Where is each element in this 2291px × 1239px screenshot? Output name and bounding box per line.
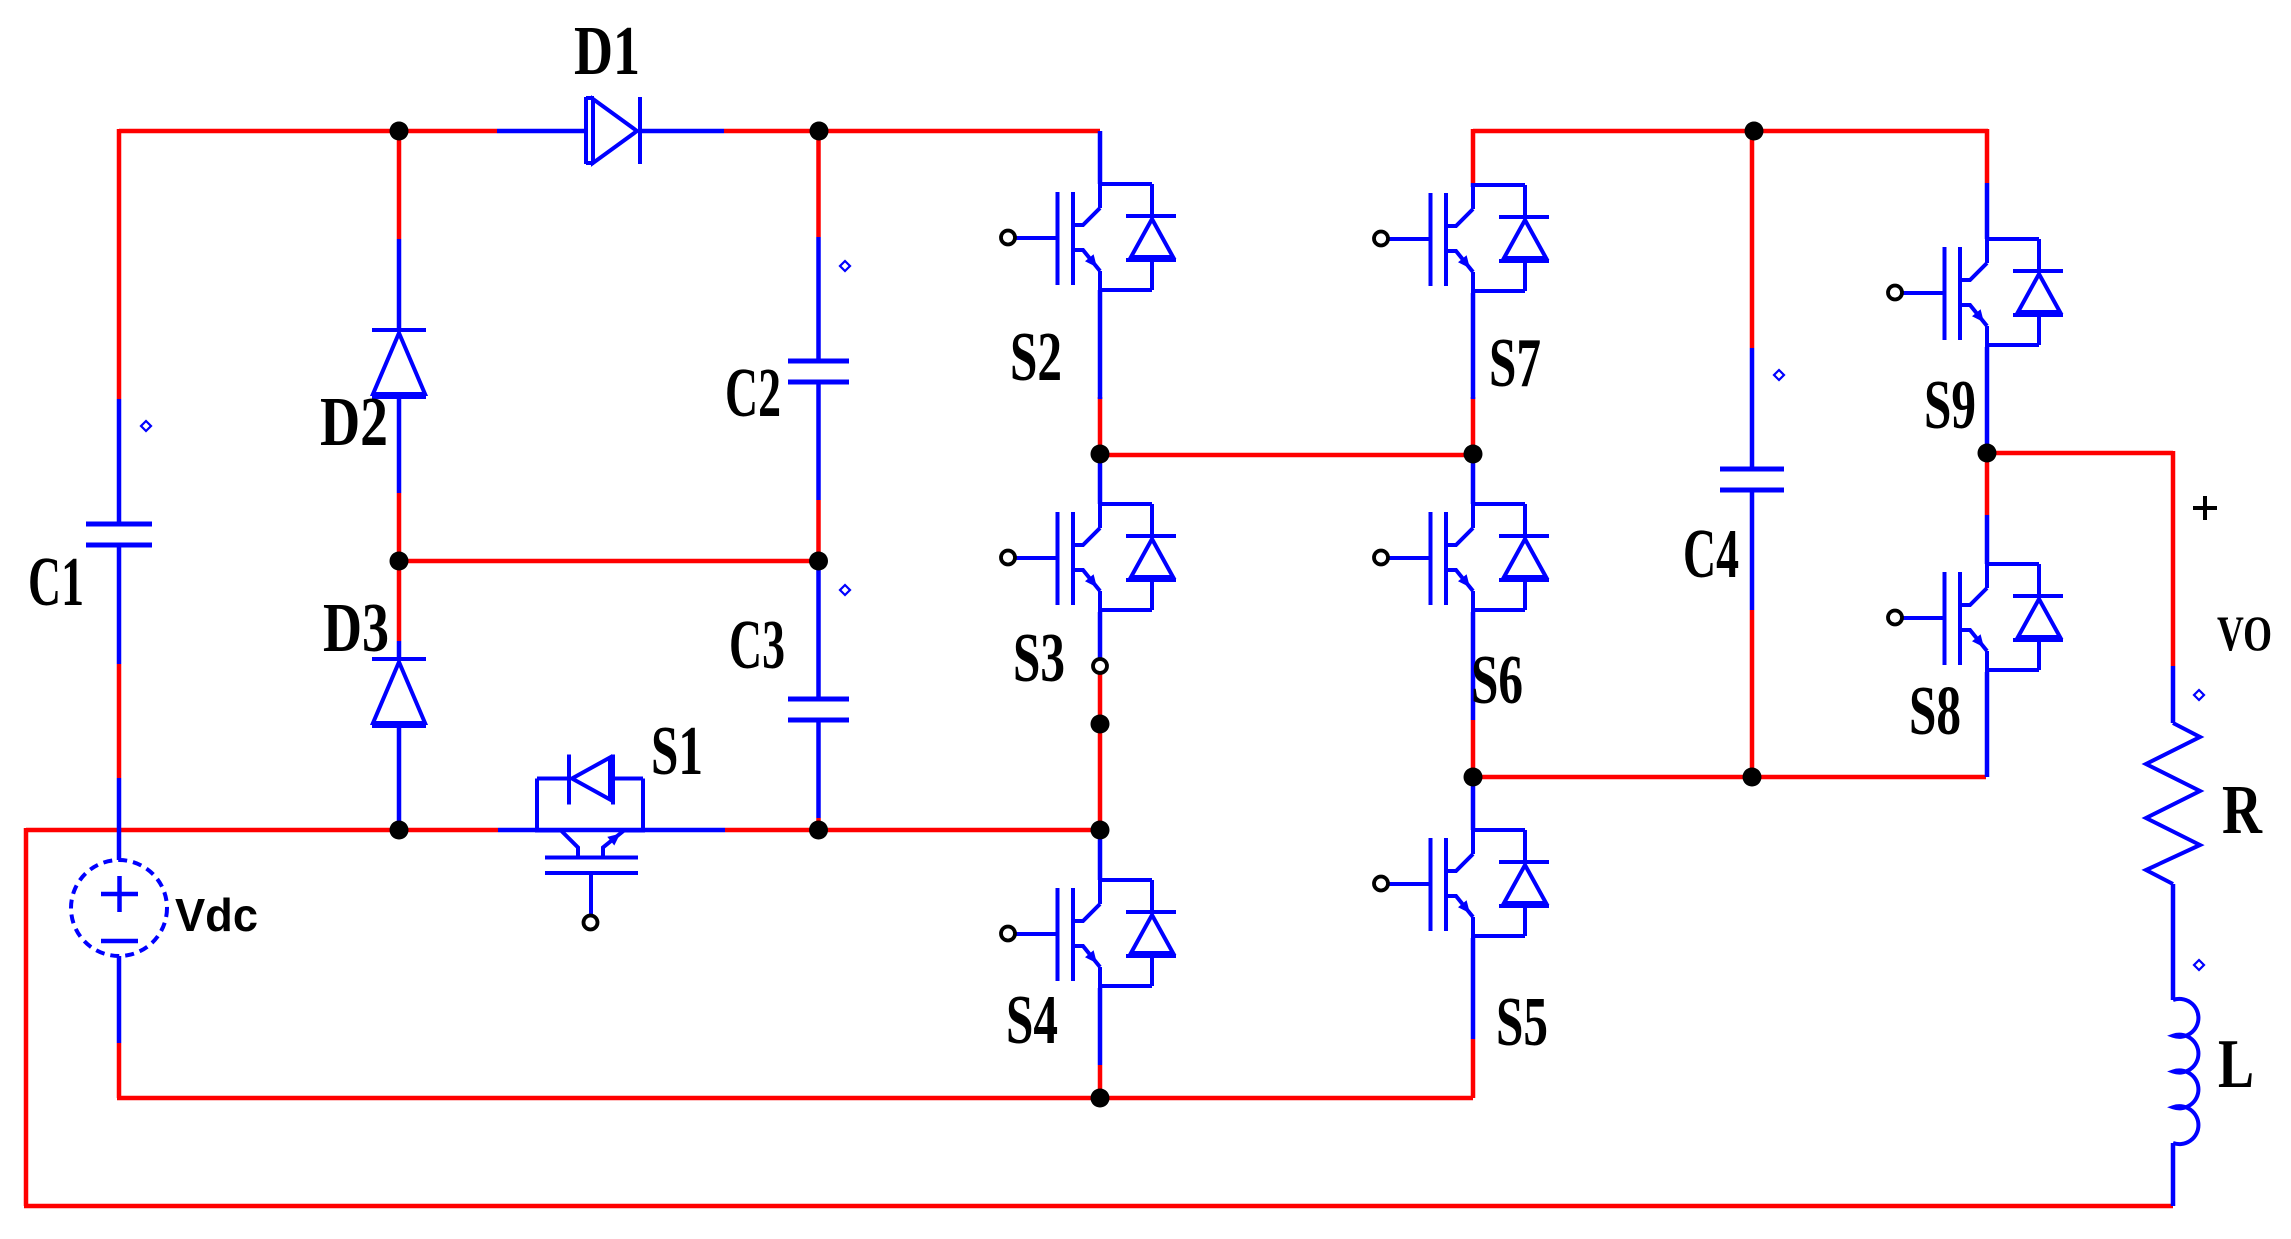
svg-text:S3: S3 [1013, 620, 1065, 697]
svg-text:S8: S8 [1909, 673, 1961, 750]
svg-text:S6: S6 [1471, 642, 1523, 719]
svg-text:L: L [2218, 1026, 2254, 1103]
svg-text:D3: D3 [323, 590, 389, 667]
svg-text:C4: C4 [1683, 516, 1739, 593]
svg-text:Vdc: Vdc [175, 889, 258, 941]
svg-text:S7: S7 [1489, 325, 1541, 402]
svg-text:S1: S1 [651, 713, 703, 790]
svg-text:S5: S5 [1496, 984, 1548, 1061]
svg-text:S2: S2 [1010, 319, 1062, 396]
svg-text:C3: C3 [729, 607, 785, 684]
svg-text:VO: VO [2217, 605, 2272, 661]
svg-text:D1: D1 [574, 13, 640, 90]
svg-text:S9: S9 [1924, 367, 1976, 444]
svg-text:D2: D2 [320, 384, 388, 461]
svg-text:S4: S4 [1006, 982, 1058, 1059]
svg-text:R: R [2222, 772, 2263, 849]
svg-text:C1: C1 [28, 544, 84, 621]
svg-text:C2: C2 [725, 355, 781, 432]
